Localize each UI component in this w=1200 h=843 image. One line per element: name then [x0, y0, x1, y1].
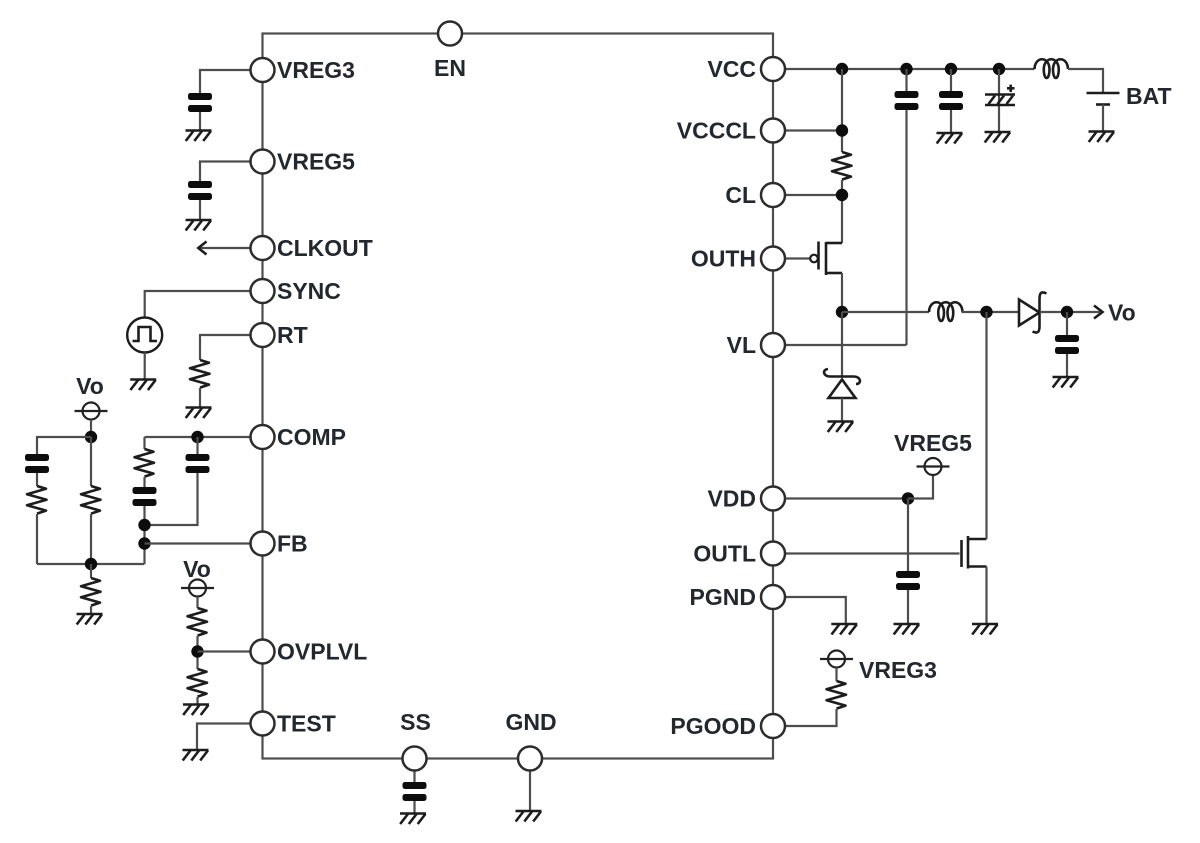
wire VCC rail [773, 68, 1035, 70]
capacitor C7 (output) [1055, 335, 1079, 354]
wire GND pin to ground [529, 770, 531, 811]
svg-text:VCC: VCC [707, 56, 756, 82]
node VCC-4 [993, 63, 1005, 75]
ground (GND pin) [516, 811, 542, 822]
wire Vo node to C7 [1066, 312, 1068, 335]
ground (C10) [985, 132, 1011, 143]
wire C2 to ground [199, 200, 201, 220]
pin PGOOD [761, 714, 785, 738]
node divider-mid [85, 558, 97, 570]
wire VDD to C11 [907, 499, 909, 572]
wire VL [773, 344, 907, 346]
node VDD [902, 492, 914, 504]
ground (BAT) [1089, 132, 1115, 143]
pin TEST [251, 712, 275, 736]
svg-text:OUTH: OUTH [691, 246, 756, 272]
wire C8 down to VL [905, 110, 907, 345]
resistor R8 (CL sense) [832, 152, 852, 180]
ground (Q2) [972, 624, 998, 635]
resistor R9 (PGOOD pullup) [827, 681, 847, 709]
svg-text:Vo: Vo [76, 373, 104, 399]
pin EN [438, 22, 462, 46]
capacitor C2 (VREG5 bypass) [188, 181, 212, 200]
pin VCC [761, 57, 785, 81]
wire Q2 source to ground [985, 567, 987, 625]
wire COMP branch down [143, 437, 145, 449]
pin RT [251, 323, 275, 347]
wire zener to ground [841, 398, 843, 422]
wire to R5 [90, 564, 92, 578]
wire C7 to ground [1066, 354, 1068, 377]
node Vo-top [85, 431, 97, 443]
resistor R7 (OVPLVL bottom) [188, 669, 208, 697]
inductor L2 [929, 302, 963, 321]
wire R7 to ground [196, 697, 198, 705]
resistor R3 [27, 486, 47, 514]
svg-text:FB: FB [277, 531, 308, 557]
wire VCC to C9 [950, 69, 952, 91]
svg-text:COMP: COMP [277, 424, 346, 450]
wire COMP rail [145, 436, 263, 438]
pin CLKOUT [251, 236, 275, 260]
wire PGND [773, 597, 846, 624]
wire TEST to ground [197, 724, 263, 751]
pin CL [761, 183, 785, 207]
svg-text:SS: SS [400, 709, 431, 735]
pin COMP [251, 425, 275, 449]
svg-text:EN: EN [434, 55, 466, 81]
pin VREG5 [251, 150, 275, 174]
wire CLKOUT output [200, 247, 263, 249]
svg-text:PGOOD: PGOOD [670, 713, 756, 739]
wire L2 to diode D1 [962, 311, 1020, 313]
node COMP-A [191, 431, 203, 443]
svg-text:VREG5: VREG5 [894, 430, 972, 456]
wire VREG5 to C2 [200, 162, 263, 182]
arrowhead Vo [1094, 306, 1103, 319]
wire C3 down to FB rail [143, 506, 145, 564]
capacitor C6 (SS) [403, 782, 427, 801]
pin GND [518, 747, 542, 771]
pin OUTL [761, 542, 785, 566]
wire to left branch [37, 437, 91, 454]
wire C5 to R3 [36, 473, 38, 486]
wire VDD [773, 497, 908, 499]
wire C9 to ground [950, 110, 952, 133]
svg-text:SYNC: SYNC [277, 278, 341, 304]
pin PGND [761, 585, 785, 609]
wire VCC to VCCCL node [841, 69, 843, 152]
pin SYNC [251, 279, 275, 303]
wire Vo to node [90, 420, 92, 438]
node VCC-3 [945, 63, 957, 75]
ground (SS) [400, 814, 426, 825]
svg-text:Vo: Vo [1108, 300, 1136, 326]
svg-text:BAT: BAT [1126, 83, 1172, 109]
wire mid branch [90, 437, 92, 486]
ground (R5) [77, 614, 103, 625]
pulse generator V1 [127, 318, 162, 353]
capacitor C5 (feedforward) [25, 454, 49, 473]
terminal Vo (divider) [75, 403, 108, 420]
wire SYNC to pulse source [145, 291, 263, 318]
ground (TEST) [183, 750, 209, 761]
svg-text:VL: VL [727, 332, 756, 358]
svg-text:VREG3: VREG3 [859, 657, 937, 683]
wire R5 to ground [90, 606, 92, 614]
node SW-out [980, 306, 992, 318]
arrowhead CLKOUT [198, 242, 206, 255]
ground (R1) [186, 408, 212, 419]
wire VREG3 to C1 [200, 70, 263, 93]
pin SS [403, 747, 427, 771]
ground (C11) [894, 624, 920, 635]
wire R9 to PGOOD [773, 709, 837, 726]
ground (C9) [937, 133, 963, 144]
inductor L1 [1035, 59, 1069, 78]
resistor R1 (RT) [190, 360, 210, 388]
node VCC-2 [900, 63, 912, 75]
ground (C2) [186, 220, 212, 231]
pin VDD [761, 487, 785, 511]
wire D1 to Vo arrow [1040, 311, 1100, 313]
svg-text:GND: GND [505, 709, 556, 735]
battery BAT [1087, 93, 1120, 105]
wire R4 to rail [90, 514, 92, 564]
capacitor C4 (COMP parallel) [196, 437, 198, 454]
svg-text:OUTL: OUTL [693, 541, 756, 567]
wire BAT to ground [1102, 105, 1104, 132]
wire VDD to VREG5 terminal [908, 475, 933, 499]
capacitor C8 (VCC-VL) [895, 91, 919, 110]
pin OVPLVL [251, 640, 275, 664]
wire R8 to CL node [841, 180, 843, 243]
wire R2 to C3 [143, 477, 145, 487]
wire VCCCL [773, 129, 842, 131]
svg-text:VREG3: VREG3 [277, 57, 355, 83]
capacitor C11 (VDD) [896, 571, 920, 590]
svg-text:PGND: PGND [690, 584, 756, 610]
diode D1 (schottky, output) [1019, 292, 1047, 332]
node FB-C [138, 537, 150, 549]
svg-text:TEST: TEST [277, 711, 336, 737]
wire OUTL to Q2 gate [773, 552, 960, 554]
node VCC-1 [836, 63, 848, 75]
capacitor C9 (VCC bypass) [939, 91, 963, 110]
node COMP-B [138, 519, 150, 531]
transistor Q1 symbol [810, 242, 842, 276]
node OVPLVL [191, 645, 203, 657]
resistor R5 (divider bottom) [81, 578, 101, 606]
node Vo-out [1061, 306, 1073, 318]
terminal VREG3 [820, 651, 853, 668]
node VCCCL [836, 124, 848, 136]
wire R3 to rail [36, 514, 38, 564]
svg-text:CLKOUT: CLKOUT [277, 235, 373, 261]
pin VL [761, 333, 785, 357]
wire R1 to ground [199, 388, 201, 408]
diode D2 (schottky, to ground) [824, 369, 860, 398]
wire FB [145, 542, 263, 544]
svg-text:Vo: Vo [183, 556, 211, 582]
svg-text:VDD: VDD [707, 486, 756, 512]
pin FB [251, 532, 275, 556]
wire CL [773, 194, 842, 196]
capacitor C10 (electrolytic) [985, 85, 1015, 105]
transistor Q1 (P-ch MOSFET) gate wire [773, 257, 811, 259]
ground (D2) [828, 422, 854, 433]
wire VCC to C8 [905, 69, 907, 91]
svg-text:CL: CL [725, 182, 756, 208]
ground (pulse source) [130, 380, 156, 391]
wire RT to R1 [200, 335, 263, 360]
ground (C7) [1053, 377, 1079, 388]
wire C1 to ground [199, 112, 201, 131]
pin VREG3 [251, 58, 275, 82]
pin VCCCL [761, 119, 785, 143]
capacitor C1 (VREG3 bypass) [188, 93, 212, 112]
terminal VREG5 [917, 458, 950, 475]
wire pulse source to ground [144, 353, 146, 380]
capacitor C3 (COMP series) [133, 487, 157, 506]
resistor R2 (COMP) [135, 449, 155, 477]
node SW [836, 306, 848, 318]
wire C11 to ground [907, 590, 909, 624]
wire C4 to node B [145, 473, 198, 525]
wire SW to zener [841, 312, 843, 377]
wire VREG3 to R9 [835, 668, 837, 682]
pin OUTH [761, 247, 785, 271]
IC body U1 outline [263, 34, 774, 759]
svg-text:VCCCL: VCCCL [677, 118, 756, 144]
ground (R7) [183, 705, 209, 716]
node CL [836, 189, 848, 201]
wire SS to C6 [413, 770, 415, 782]
wire C6 to ground [413, 801, 415, 814]
ground (C1) [186, 131, 212, 142]
wire L1 to BAT [1068, 69, 1103, 93]
wire VCC to C10 [998, 69, 1000, 132]
wire Q1 drain to SW node [841, 273, 843, 312]
ground (PGND) [831, 624, 857, 635]
svg-text:RT: RT [277, 322, 308, 348]
wire divider bottom rail [37, 563, 145, 565]
resistor R6 (OVPLVL top) [188, 608, 208, 636]
wire Q2 drain up to SW-out node [985, 312, 987, 539]
wire node to OVPLVL pin [198, 650, 263, 652]
wire R6 to node [196, 636, 198, 669]
wire SW to inductor [842, 311, 929, 313]
svg-text:VREG5: VREG5 [277, 149, 355, 175]
transistor Q2 (N-ch MOSFET) [962, 536, 987, 569]
wire Vo to R6 [196, 597, 198, 609]
svg-text:OVPLVL: OVPLVL [277, 639, 367, 665]
resistor R4 (divider top) [81, 486, 101, 514]
terminal Vo (OVPLVL) [181, 580, 214, 597]
